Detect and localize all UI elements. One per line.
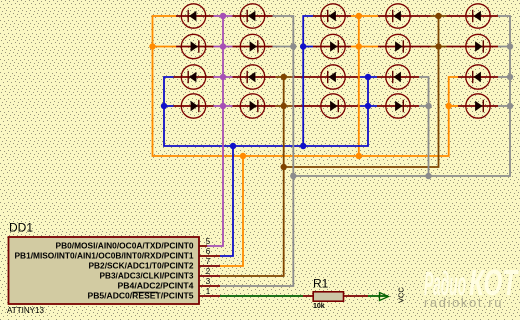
svg-text:ATTINY13: ATTINY13	[7, 305, 44, 315]
svg-text:PB3/ADC3/CLKI/PCINT3: PB3/ADC3/CLKI/PCINT3	[100, 271, 195, 280]
svg-text:10k: 10k	[313, 303, 325, 310]
svg-text:PB0/MOSI/AIN0/OC0A/TXD/PCINT0: PB0/MOSI/AIN0/OC0A/TXD/PCINT0	[56, 241, 195, 250]
svg-text:PB4/ADC2/PCINT4: PB4/ADC2/PCINT4	[118, 281, 195, 290]
svg-text:PB2/SCK/ADC1/T0/PCINT2: PB2/SCK/ADC1/T0/PCINT2	[89, 261, 195, 270]
svg-text:3: 3	[206, 277, 211, 286]
svg-text:radiokot.ru: radiokot.ru	[424, 295, 503, 310]
svg-text:2: 2	[206, 267, 211, 276]
svg-text:7: 7	[206, 257, 211, 266]
svg-text:1: 1	[206, 287, 211, 296]
svg-text:R1: R1	[313, 277, 329, 291]
svg-text:5: 5	[206, 237, 211, 246]
svg-text:PB1/MISO/INT0/AIN1/OC0B/INT0/R: PB1/MISO/INT0/AIN1/OC0B/INT0/RXD/PCINT1	[15, 251, 195, 260]
svg-text:VCC: VCC	[397, 287, 406, 303]
svg-text:DD1: DD1	[9, 221, 33, 235]
svg-text:6: 6	[206, 247, 211, 256]
